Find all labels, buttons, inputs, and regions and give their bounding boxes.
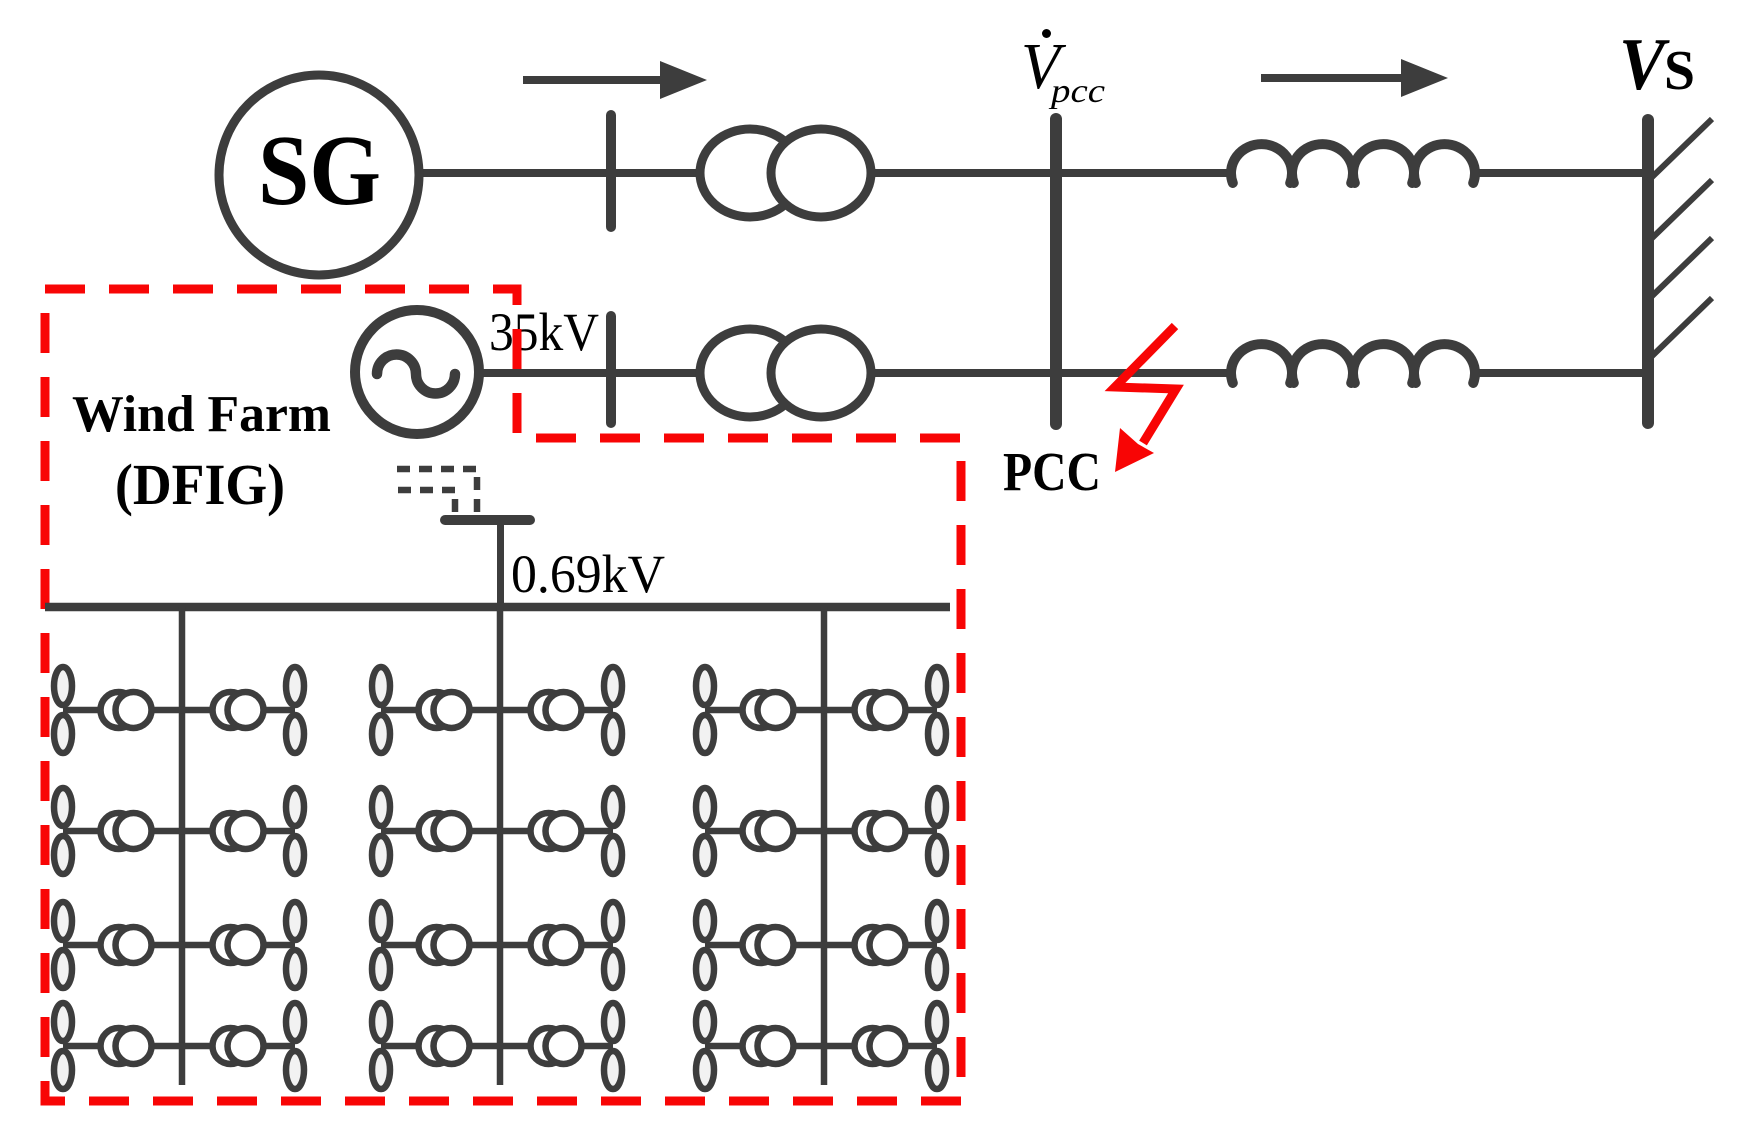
wire feeder 1 row 3 [63, 942, 295, 949]
feeder 3 [821, 607, 828, 1085]
red dashed wind farm boundary [45, 289, 961, 1101]
wind turbine WT7 blades [54, 1003, 72, 1089]
wire collector drop [497, 522, 504, 607]
wire feeder 1 row 1 [63, 707, 295, 714]
transformer WT23 step-up [743, 1028, 794, 1064]
wind turbine WT18 blades [928, 667, 946, 753]
wind turbine WT14 blades [604, 902, 622, 988]
grid hatch marks [1648, 119, 1712, 360]
main LV bus 0.69kV [45, 603, 950, 612]
fault lightning arrow at PCC [1115, 326, 1176, 472]
transformer WT7 step-up [101, 1028, 152, 1064]
wind turbine WT21 blades [696, 902, 714, 988]
breaker tick row2 [606, 316, 616, 423]
wind turbine WT6 blades [286, 902, 304, 988]
power flow arrow row1 [523, 61, 707, 99]
transformer WT10 step-up [531, 692, 582, 728]
wind turbine WT4 blades [286, 788, 304, 874]
transformer WT9 step-up [419, 692, 470, 728]
transformer T1 (SG step-up) [700, 129, 871, 217]
transformer WT11 step-up [419, 813, 470, 849]
feeder 1 [179, 607, 186, 1085]
transformer WT8 step-up [213, 1028, 264, 1064]
transformer WT1 step-up [101, 692, 152, 728]
wind turbine WT24 blades [928, 1003, 946, 1089]
wind turbine WT20 blades [928, 788, 946, 874]
transformer WT22 step-up [855, 927, 906, 963]
wind turbine WT2 blades [286, 667, 304, 753]
feeder 2 [497, 607, 504, 1085]
wire feeder 3 row 2 [705, 828, 937, 835]
wind turbine WT22 blades [928, 902, 946, 988]
transformer WT6 step-up [213, 927, 264, 963]
transformer WT12 step-up [531, 813, 582, 849]
transformer WT4 step-up [213, 813, 264, 849]
equivalent AC source (wind farm aggregate) [355, 310, 479, 434]
power flow arrow row2 top [1261, 59, 1448, 97]
svg-text:Wind Farm: Wind Farm [72, 386, 331, 443]
transformer WT5 step-up [101, 927, 152, 963]
node Vs label [1619, 24, 1695, 106]
transformer WT2 step-up [213, 692, 264, 728]
transformer WT24 step-up [855, 1028, 906, 1064]
wire feeder 3 row 3 [705, 942, 937, 949]
wind turbine WT15 blades [372, 1003, 390, 1089]
svg-text:35kV: 35kV [489, 302, 599, 362]
dashed collector connection [397, 469, 477, 517]
wind turbine WT5 blades [54, 902, 72, 988]
wire feeder 2 row 4 [381, 1043, 613, 1050]
transformer T2 (wind farm step-up) [700, 329, 871, 417]
PCC bus bar [1050, 119, 1062, 424]
wire feeder 2 row 3 [381, 942, 613, 949]
wind turbine WT23 blades [696, 1003, 714, 1089]
wire feeder 3 row 4 [705, 1043, 937, 1050]
wire feeder 2 row 1 [381, 707, 613, 714]
svg-text:S: S [1664, 40, 1695, 102]
wire row2 wind farm to grid bus [479, 369, 1233, 377]
wind turbine WT10 blades [604, 667, 622, 753]
transformer WT3 step-up [101, 813, 152, 849]
wire feeder 1 row 4 [63, 1043, 295, 1050]
wind turbine WT8 blades [286, 1003, 304, 1089]
wire feeder 1 row 2 [63, 828, 295, 835]
line inductor L2 row2 [1231, 344, 1475, 383]
wire row1 SG to grid bus [418, 169, 1233, 177]
breaker tick row1 [606, 115, 616, 227]
infinite grid bus bar Vs [1642, 120, 1654, 423]
node Vpcc label [1021, 29, 1105, 110]
svg-text:0.69kV: 0.69kV [511, 544, 665, 604]
transformer WT17 step-up [743, 692, 794, 728]
wind turbine WT12 blades [604, 788, 622, 874]
wind turbine WT16 blades [604, 1003, 622, 1089]
wind turbine WT1 blades [54, 667, 72, 753]
svg-text:V: V [1619, 24, 1670, 106]
transformer WT20 step-up [855, 813, 906, 849]
wind turbine WT19 blades [696, 788, 714, 874]
transformer WT16 step-up [531, 1028, 582, 1064]
svg-text:(DFIG): (DFIG) [115, 452, 285, 517]
wind turbine WT11 blades [372, 788, 390, 874]
transformer WT14 step-up [531, 927, 582, 963]
svg-text:SG: SG [258, 114, 381, 226]
transformer WT21 step-up [743, 927, 794, 963]
transformer WT15 step-up [419, 1028, 470, 1064]
wind turbine WT17 blades [696, 667, 714, 753]
wind turbine WT3 blades [54, 788, 72, 874]
svg-text:pcc: pcc [1049, 73, 1105, 110]
collector bus bar 0.69kV [445, 515, 530, 525]
svg-text:PCC: PCC [1003, 441, 1101, 502]
wire feeder 2 row 2 [381, 828, 613, 835]
wind turbine WT13 blades [372, 902, 390, 988]
wire feeder 3 row 1 [705, 707, 937, 714]
line inductor L1 row1 [1231, 144, 1475, 183]
synchronous generator SG [219, 75, 419, 275]
transformer WT19 step-up [743, 813, 794, 849]
transformer WT18 step-up [855, 692, 906, 728]
wind turbine WT9 blades [372, 667, 390, 753]
transformer WT13 step-up [419, 927, 470, 963]
